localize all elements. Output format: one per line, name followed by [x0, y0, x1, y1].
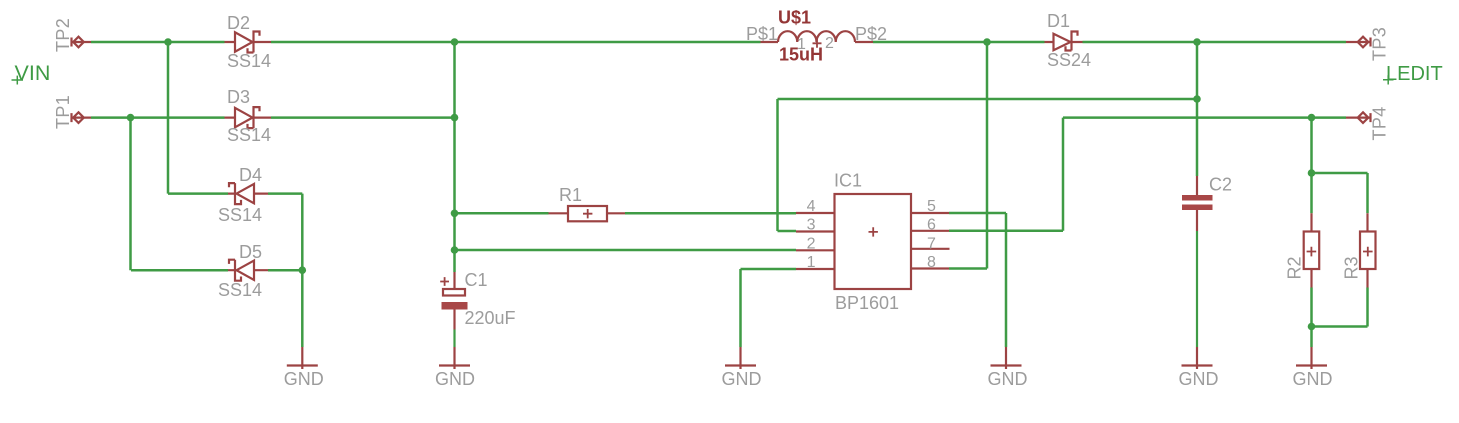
svg-text:8: 8 [927, 254, 936, 271]
svg-text:P$2: P$2 [855, 24, 887, 44]
svg-text:D1: D1 [1047, 11, 1070, 31]
svg-text:D2: D2 [227, 13, 250, 33]
svg-text:SS14: SS14 [218, 205, 262, 225]
svg-text:SS14: SS14 [218, 280, 262, 300]
svg-text:R2: R2 [1285, 256, 1305, 279]
svg-text:GND: GND [1179, 369, 1219, 389]
svg-text:7: 7 [927, 236, 936, 253]
svg-text:R1: R1 [559, 185, 582, 205]
svg-text:GND: GND [1293, 369, 1333, 389]
svg-text:GND: GND [435, 369, 475, 389]
svg-text:TP3: TP3 [1370, 27, 1390, 61]
svg-text:3: 3 [807, 217, 816, 234]
svg-text:4: 4 [807, 198, 816, 215]
svg-text:15uH: 15uH [779, 45, 823, 65]
svg-text:D4: D4 [239, 165, 262, 185]
svg-text:D3: D3 [227, 87, 250, 107]
svg-text:D5: D5 [239, 242, 262, 262]
svg-text:VIN: VIN [15, 61, 51, 85]
svg-text:SS14: SS14 [227, 125, 271, 145]
svg-text:C2: C2 [1209, 175, 1232, 195]
svg-text:5: 5 [927, 198, 936, 215]
svg-text:1: 1 [807, 254, 816, 271]
svg-text:SS24: SS24 [1047, 50, 1091, 70]
svg-text:IC1: IC1 [834, 171, 862, 191]
svg-text:SS14: SS14 [227, 51, 271, 71]
svg-text:BP1601: BP1601 [835, 293, 899, 313]
svg-text:TP4: TP4 [1370, 106, 1390, 140]
svg-text:TP2: TP2 [53, 18, 73, 52]
svg-text:P$1: P$1 [746, 24, 778, 44]
svg-text:GND: GND [284, 369, 324, 389]
svg-text:R3: R3 [1342, 256, 1362, 279]
svg-text:2: 2 [807, 236, 816, 253]
svg-text:LEDIT: LEDIT [1386, 63, 1443, 85]
svg-text:C1: C1 [465, 270, 488, 290]
svg-text:2: 2 [825, 35, 834, 52]
svg-text:6: 6 [927, 217, 936, 234]
svg-text:TP1: TP1 [53, 95, 73, 129]
svg-text:220uF: 220uF [465, 308, 516, 328]
svg-text:GND: GND [722, 369, 762, 389]
svg-text:U$1: U$1 [778, 8, 811, 28]
svg-text:GND: GND [988, 369, 1028, 389]
